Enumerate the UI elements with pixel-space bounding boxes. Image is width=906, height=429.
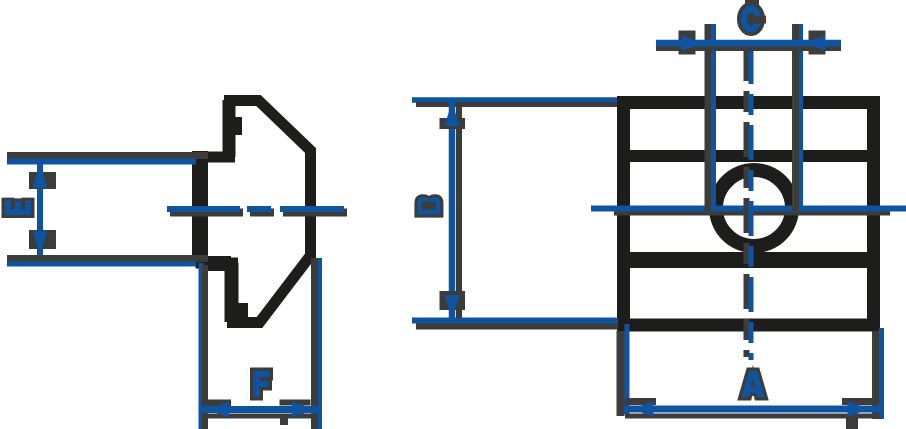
- dimension F right arrow gray stub: [280, 414, 288, 425]
- label C: [744, 0, 766, 29]
- dimension F arrow right gray block: [280, 400, 311, 406]
- dimension B arrow down gray block: [440, 291, 466, 310]
- dimension A line (blue): [624, 406, 881, 413]
- head left face (thick): [192, 151, 208, 264]
- label E (rotated): [5, 201, 31, 215]
- extension line B top (gray): [416, 102, 617, 107]
- dimension B arrow up gray block: [440, 118, 466, 129]
- extension line E bottom (blue): [7, 262, 196, 267]
- inner horizontal line top: [623, 150, 873, 162]
- dimension E arrow up: [33, 164, 48, 189]
- dimension F line (blue): [200, 406, 321, 413]
- label F: [254, 371, 270, 397]
- dimension C line (gray copy): [656, 46, 841, 51]
- dimension A arrow right gray block: [842, 398, 872, 405]
- extension line C right (gray): [792, 24, 799, 211]
- dimension A arrow left gray block: [625, 398, 656, 405]
- extension line A right (blue): [879, 328, 884, 419]
- inner horizontal line bottom: [623, 252, 873, 268]
- square outline: [624, 103, 874, 326]
- dimension E arrow up gray block: [29, 172, 56, 189]
- centerline left view (gray copy): [170, 209, 347, 217]
- dimension B arrow up: [445, 102, 460, 127]
- head inner vertical top (thick): [223, 100, 236, 157]
- centerline horizontal (gray copy): [614, 210, 890, 216]
- extension line F right (blue): [318, 258, 322, 429]
- extension line B bottom (blue): [412, 318, 618, 324]
- dimension A arrow left: [630, 402, 654, 417]
- head inner vertical bottom (thick): [225, 263, 239, 322]
- head outline: [201, 101, 311, 323]
- extension line E top (blue): [7, 159, 196, 165]
- extension line C right (blue): [799, 24, 803, 211]
- extension line B bottom (gray): [416, 324, 618, 330]
- dimension E arrow down gray block: [29, 230, 56, 249]
- dimension F line (gray copy): [204, 414, 318, 419]
- extension line A left (blue): [625, 324, 630, 414]
- extension line F left (gray): [202, 265, 208, 429]
- centerline horizontal (blue): [591, 206, 906, 212]
- bottom inner nub: [238, 303, 248, 321]
- head bottom step bar: [200, 256, 231, 271]
- dimension F arrow left gray block: [204, 400, 231, 407]
- extension line C left (gray): [705, 24, 712, 211]
- top inner nub: [233, 117, 242, 135]
- extension line F right (gray): [311, 258, 318, 429]
- dimension C arrow right (points left): [804, 36, 826, 51]
- label A: [742, 371, 765, 397]
- dimension C arrow left gray block: [679, 31, 696, 55]
- centerline vertical (blue): [749, 49, 754, 360]
- dimension B line (gray copy): [456, 107, 462, 318]
- dimension A arrow right: [848, 402, 872, 417]
- centerline vertical (gray copy): [744, 46, 750, 357]
- label B (rotated): [418, 197, 441, 214]
- dimension F arrow right: [292, 402, 316, 417]
- extension line C left (blue): [711, 24, 716, 211]
- extension line B top (blue): [412, 97, 617, 103]
- centerline left view (blue): [167, 206, 344, 212]
- dimension E arrow down: [33, 231, 48, 256]
- extension line A right (gray): [872, 331, 879, 419]
- dimension C line (blue): [656, 40, 841, 47]
- extension line A left (gray): [617, 331, 625, 416]
- dimension C arrow right gray block: [809, 31, 826, 55]
- dimension E line: [37, 164, 43, 255]
- dimension A line (gray copy): [625, 414, 879, 419]
- dimension C arrow left (points right): [682, 36, 705, 51]
- dimension A right arrow gray stub: [846, 414, 858, 429]
- dimension B line (blue): [449, 102, 456, 319]
- shaft bottom edge (gray): [7, 255, 208, 262]
- dimension F arrow left: [206, 402, 230, 417]
- dimension B arrow down: [445, 295, 460, 320]
- shaft top edge (gray): [7, 152, 208, 159]
- hole circle: [716, 170, 792, 246]
- extension line F left (blue): [199, 263, 204, 429]
